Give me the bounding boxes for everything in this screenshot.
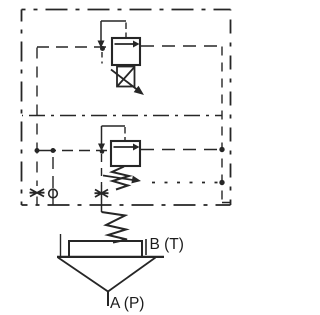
plugged port Y symbol (star) xyxy=(95,190,109,198)
wire: U2 outlet line (right, dashed) xyxy=(141,149,219,151)
wire: port A connection xyxy=(107,291,109,306)
wire: drain stub below junction xyxy=(101,52,103,64)
svg-text:A (P): A (P) xyxy=(110,295,144,312)
junction node at U2 inlet xyxy=(100,149,105,154)
pilot valve U1 body xyxy=(112,38,140,65)
junction node on test line X xyxy=(35,148,40,153)
wire: drain through enclosure to main spring xyxy=(101,185,103,212)
valve enclosure boundary: top edge (dash-dot) xyxy=(22,9,231,11)
wire: U2 supply line (left, dashed) xyxy=(37,150,56,152)
svg-text:B (T): B (T) xyxy=(150,236,184,253)
wire: spring-chamber drain (dotted) xyxy=(152,182,219,184)
wire: main-stage pilot drain (dashed vertical) xyxy=(101,154,103,185)
main poppet stage: seat shoulder line xyxy=(57,256,164,258)
junction node right upper xyxy=(219,147,224,152)
main poppet stage: port B riser tick xyxy=(145,239,147,255)
junction node right lower xyxy=(219,180,224,185)
wire: pilot supply line (left, dashed) xyxy=(37,46,111,48)
valve enclosure boundary: bottom edge (dash-dot) xyxy=(22,204,231,206)
plugged port X symbol xyxy=(30,189,45,205)
wire: test line X (dashed vertical) xyxy=(36,48,38,187)
internal pilot-section divider (dash-dot) xyxy=(22,115,222,117)
junction node at pilot supply xyxy=(100,46,105,51)
wire: gauge line (dashed vertical) xyxy=(52,157,54,188)
adjustable spring of relief pilot U2 xyxy=(112,167,129,190)
main poppet seat (cone) xyxy=(58,258,156,292)
valve enclosure boundary: right edge (dash-dot) xyxy=(230,10,232,206)
wire: U2 feedback bracket xyxy=(102,125,126,127)
wire: pilot-spool feedback bracket xyxy=(101,20,126,22)
adjustability arrow through solenoid xyxy=(111,70,144,96)
wire: right collector line (dashed vertical) xyxy=(222,47,230,203)
wire: U2 feedback drop with flow arrow xyxy=(98,126,105,151)
adjustment arrow across spring U2 xyxy=(103,176,141,184)
gauge connection port symbol xyxy=(49,189,58,205)
junction node on gauge line xyxy=(51,148,56,153)
flow-path arrow of relief pilot U2 xyxy=(114,144,140,151)
main-stage spring xyxy=(102,212,128,243)
flow-path arrow of pilot valve U1 xyxy=(115,41,140,48)
valve enclosure boundary: left edge (dash-dot) xyxy=(21,10,23,206)
wire: pilot outlet line (right, dashed) xyxy=(141,45,221,47)
proportional solenoid of U1 (box with diagonal) xyxy=(117,67,135,87)
relief pilot valve U2 body xyxy=(111,141,140,166)
main poppet stage: spring cage left tick xyxy=(60,234,62,257)
main poppet stage body xyxy=(69,241,142,257)
wire: feedback drop with flow arrow xyxy=(98,21,105,48)
